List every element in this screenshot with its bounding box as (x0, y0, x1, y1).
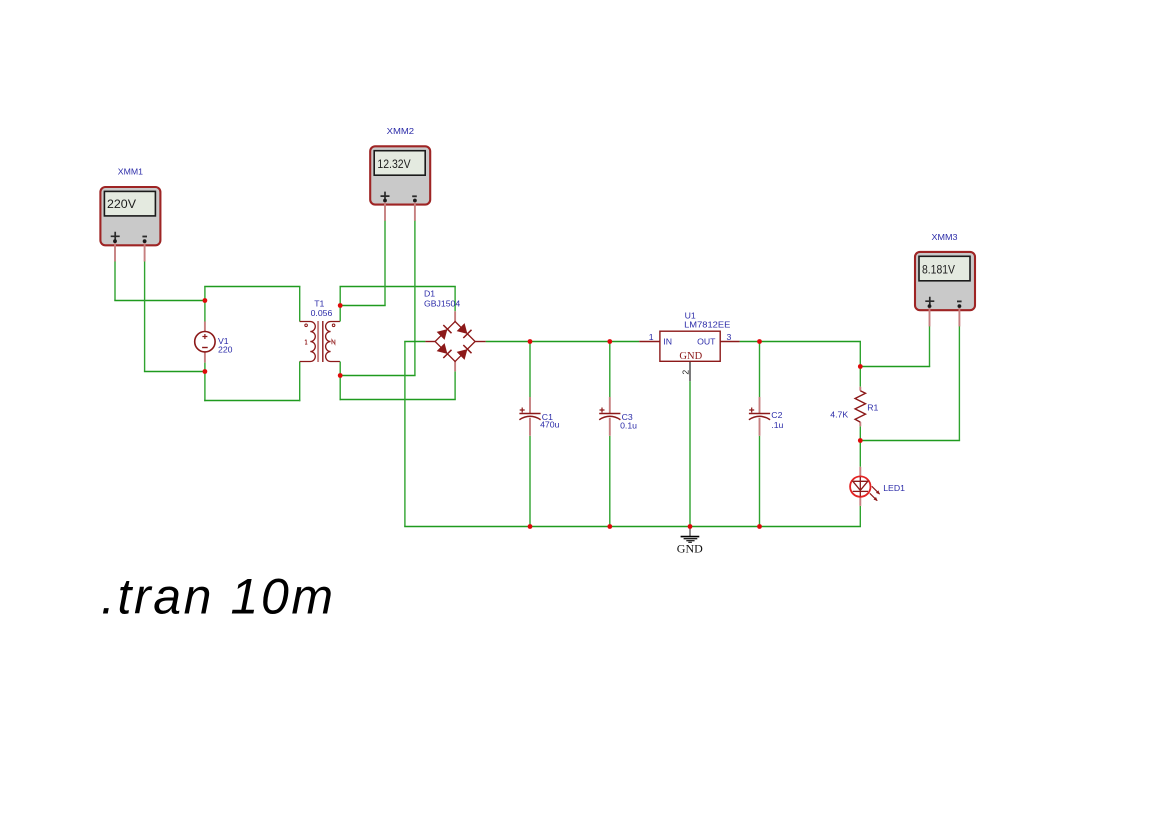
pin 2 (689, 361, 691, 381)
wire secondary rail top (340, 286, 456, 288)
svg-text:OUT: OUT (697, 336, 716, 346)
svg-text:470u: 470u (540, 419, 559, 429)
svg-text:4.7K: 4.7K (830, 410, 848, 420)
svg-text:8.181V: 8.181V (922, 262, 955, 276)
svg-text:XMM1: XMM1 (118, 167, 143, 177)
wire V1 left lower (204, 363, 206, 402)
wire XMM3 minus riser (958, 326, 960, 441)
wire C2 top (759, 342, 761, 398)
ground (681, 527, 700, 543)
wire T1 secondary bottom to node D (339, 362, 341, 401)
junction R1 top (858, 364, 863, 369)
wire T1 primary top (299, 287, 301, 322)
wire rail to bridge top (454, 287, 456, 312)
svg-text:12.32V: 12.32V (377, 157, 410, 171)
wire XMM1 minus to node B (144, 371, 205, 373)
wire R1 bottom node to XMM3 minus (860, 440, 961, 442)
wire R1 bottom to LED1 (859, 426, 861, 467)
junction C3 top (607, 339, 612, 344)
svg-text:2: 2 (681, 370, 691, 375)
junction C3 bottom (607, 524, 612, 529)
wire XMM1 minus down (144, 261, 146, 372)
pin 1 (639, 341, 660, 343)
wire node C branch (340, 305, 386, 307)
wire V1 left upper (204, 287, 206, 322)
wire rail corner down (859, 342, 861, 367)
wire LED1 to ground rail (859, 506, 861, 527)
wire R1 top lead (859, 367, 861, 387)
wire positive rail left (486, 341, 640, 343)
wire T1 secondary top to node C (339, 287, 341, 322)
wire positive rail right (740, 341, 861, 343)
wire C2 bottom (759, 436, 761, 527)
wire secondary loop bottom (340, 399, 456, 401)
svg-text:LED1: LED1 (883, 483, 905, 493)
wire node D branch (340, 375, 416, 377)
diode D1b top-right (457, 323, 472, 338)
pin 3 (720, 341, 739, 343)
capacitor C3 (599, 397, 620, 436)
junction node C (338, 303, 343, 308)
wire bridge left out (404, 341, 425, 343)
wire XMM3 plus riser (929, 326, 931, 367)
wire U1 GND pin to ground rail (689, 381, 691, 526)
diode D1c bottom-left (437, 343, 452, 358)
svg-text:LM7812EE: LM7812EE (684, 320, 730, 330)
junction node B (203, 369, 208, 374)
wire V1 loop bottom (204, 400, 300, 402)
junction R1 bottom (858, 438, 863, 443)
junction C2 bottom (757, 524, 762, 529)
capacitor C1 (519, 397, 540, 436)
multimeter XMM3 (915, 252, 975, 327)
wire XMM1 plus to node A (114, 300, 205, 302)
junction node A (203, 298, 208, 303)
junction node D (338, 373, 343, 378)
wire up to XMM2 plus (384, 220, 386, 306)
diode D1a top-left (437, 325, 452, 340)
transformer T1 (300, 321, 340, 362)
wire bridge bottom riser (454, 371, 456, 399)
svg-text:3: 3 (727, 332, 732, 342)
bridge rectifier D1 (425, 311, 485, 371)
junction C2 top (757, 339, 762, 344)
svg-text:IN: IN (663, 336, 672, 346)
wire up to XMM2 minus (414, 220, 416, 376)
wire ground rail (404, 526, 861, 528)
source V1 (195, 322, 215, 363)
regulator U1 (639, 331, 739, 381)
svg-text:220V: 220V (107, 197, 136, 211)
multimeter XMM2 (370, 146, 430, 221)
wire C3 top (609, 342, 611, 398)
wire V1 loop top (204, 286, 300, 288)
svg-text:C2: C2 (771, 410, 782, 420)
wire C1 top (529, 342, 531, 398)
capacitor C2 (749, 397, 770, 436)
svg-text:XMM2: XMM2 (387, 126, 415, 136)
wire C3 bottom (609, 436, 611, 527)
svg-text:GND: GND (677, 542, 703, 556)
svg-text:.tran 10m: .tran 10m (101, 569, 336, 625)
resistor R1 (855, 387, 865, 427)
wire XMM1 plus down (114, 261, 116, 301)
multimeter XMM1 (100, 187, 160, 262)
wire T1 primary bottom (299, 362, 301, 402)
svg-text:D1: D1 (424, 289, 435, 299)
junction C1 bottom (528, 524, 533, 529)
wire R1 top node to XMM3 plus (860, 366, 931, 368)
LED LED1 (850, 467, 880, 506)
svg-text:R1: R1 (867, 402, 878, 412)
svg-text:GBJ1504: GBJ1504 (424, 298, 460, 308)
diode D1d bottom-right (457, 345, 472, 360)
svg-text:0.1u: 0.1u (620, 421, 637, 431)
svg-text:0.056: 0.056 (311, 308, 333, 318)
svg-text:1: 1 (649, 332, 654, 342)
wire bridge left down (404, 342, 406, 527)
svg-text:GND: GND (679, 351, 702, 362)
svg-text:.1u: .1u (771, 420, 783, 430)
junction ground node (688, 524, 693, 529)
svg-text:220: 220 (218, 345, 233, 355)
junction C1 top (528, 339, 533, 344)
svg-text:XMM3: XMM3 (932, 232, 958, 242)
wire C1 bottom (529, 436, 531, 527)
